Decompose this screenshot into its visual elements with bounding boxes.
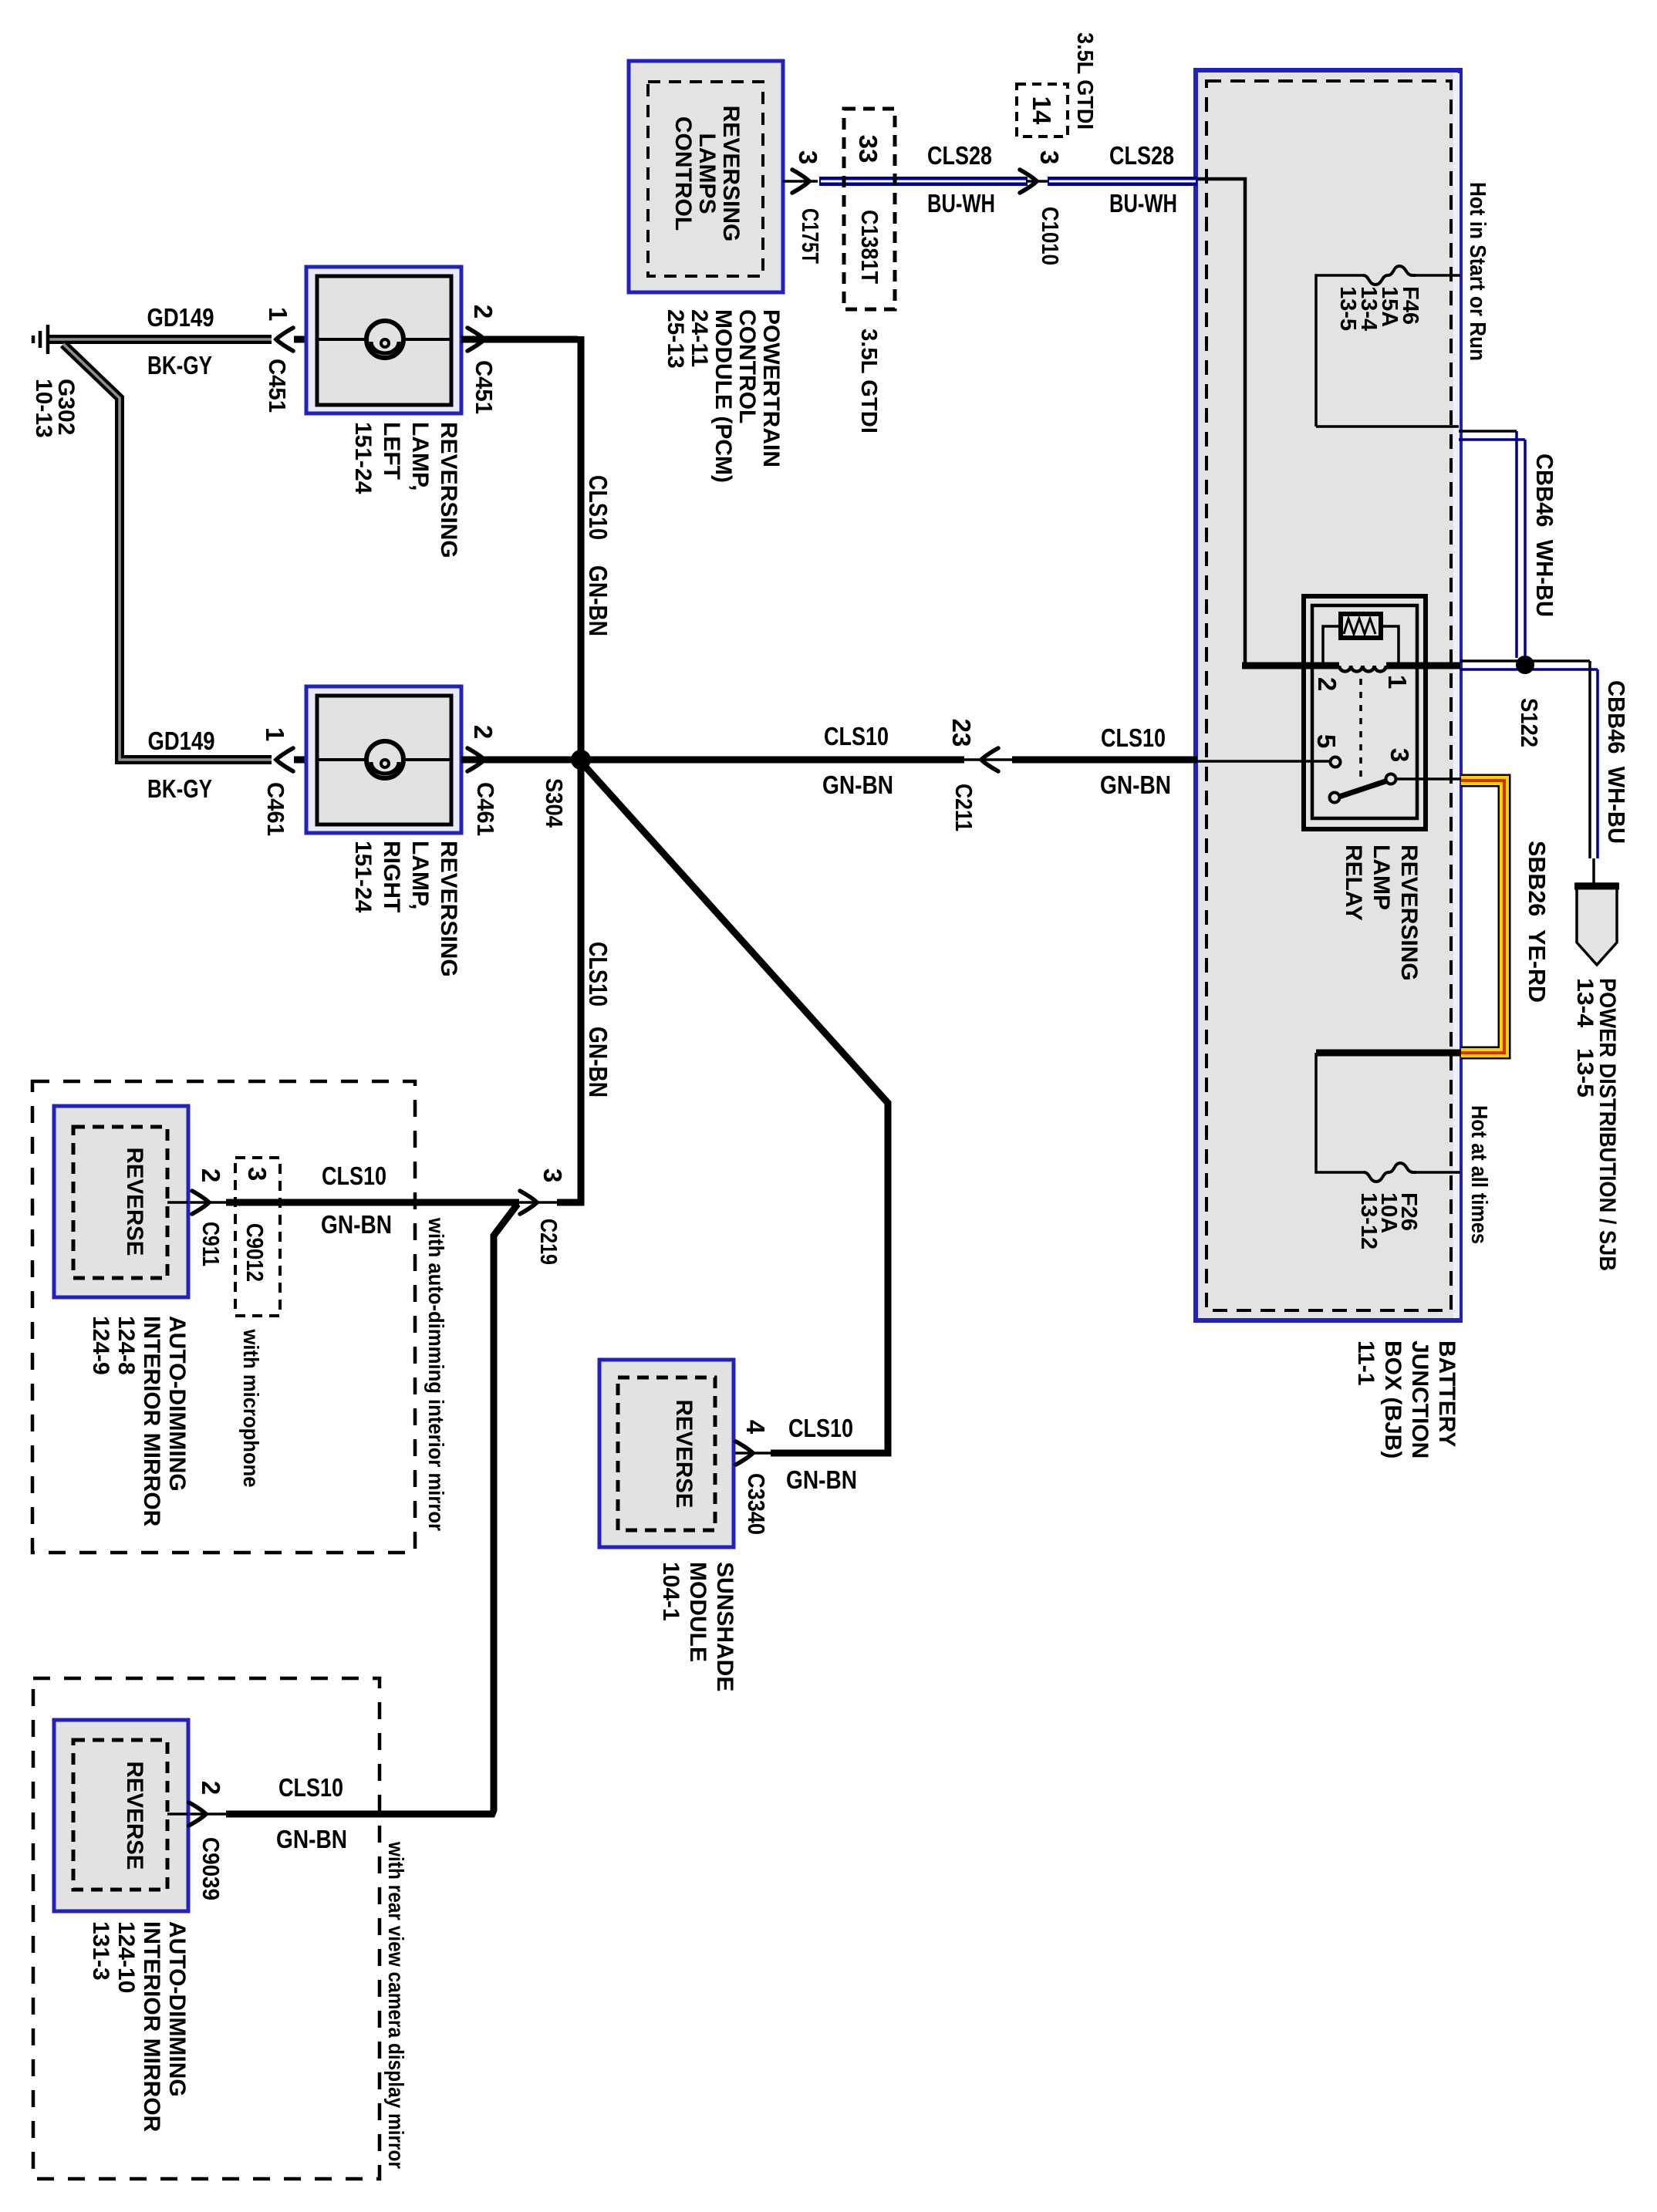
svg-text:BK-GY: BK-GY [147, 351, 212, 379]
arrow C219 [520, 1191, 537, 1214]
arrow C3340 [736, 1442, 753, 1465]
auto-dimming interior mirror 2 REVERSE box [54, 1720, 188, 1911]
svg-text:GN-BN: GN-BN [1100, 770, 1171, 799]
wire: thick relay pin1 to BJB edge [1386, 663, 1460, 669]
svg-text:C911: C911 [197, 1222, 224, 1266]
svg-text:3.5L GTDI: 3.5L GTDI [1072, 32, 1097, 130]
svg-text:C1010: C1010 [1037, 207, 1064, 265]
svg-text:POWERTRAINCONTROLMODULE (PCM)2: POWERTRAINCONTROLMODULE (PCM)24-1125-13 [663, 309, 784, 483]
svg-text:CLS10: CLS10 [584, 475, 613, 540]
wire: thin at C211 arrow [964, 758, 1012, 761]
relay pin3 contact [1386, 774, 1396, 784]
svg-text:BATTERYJUNCTIONBOX (BJB)11-1: BATTERYJUNCTIONBOX (BJB)11-1 [1353, 1340, 1460, 1458]
wire: thick black into left lamp pin1 [294, 336, 308, 343]
svg-text:5: 5 [1312, 734, 1341, 748]
reversing lamp right box [306, 686, 461, 833]
auto-dimming interior mirror 1 REVERSE box [54, 1106, 188, 1297]
svg-text:C9039: C9039 [197, 1837, 224, 1900]
svg-text:CLS10: CLS10 [824, 722, 889, 750]
svg-text:2: 2 [1313, 677, 1341, 691]
svg-text:GN-BN: GN-BN [584, 1027, 613, 1098]
node S122 [1516, 656, 1534, 674]
svg-text:REVERSINGLAMP,LEFT151-24: REVERSINGLAMP,LEFT151-24 [350, 422, 461, 558]
svg-text:REVERSE: REVERSE [671, 1400, 697, 1509]
svg-text:SBB26 YE-RD: SBB26 YE-RD [1524, 841, 1551, 1003]
wire: SBB26 YE-RD yellow loop [1461, 781, 1504, 1053]
svg-text:3: 3 [538, 1168, 567, 1182]
bulb right lamp [366, 741, 403, 778]
wire: CLS10 right lamp row through S304 [461, 757, 964, 764]
svg-text:CBB46 WH-BU: CBB46 WH-BU [1531, 454, 1558, 617]
svg-text:Hot in Start or Run: Hot in Start or Run [1465, 182, 1490, 361]
relay coil stubs [1323, 626, 1399, 663]
svg-text:2: 2 [197, 1168, 225, 1182]
svg-text:AUTO-DIMMINGINTERIOR MIRROR124: AUTO-DIMMINGINTERIOR MIRROR124-8124-9 [88, 1316, 190, 1527]
svg-text:2: 2 [197, 1781, 225, 1795]
wire: thin relay pin3 to BJB right edge [1396, 777, 1461, 781]
svg-text:GN-BN: GN-BN [584, 565, 613, 636]
svg-text:with rear view camera display: with rear view camera display mirror [384, 1841, 408, 2169]
bulb left lamp [366, 321, 403, 358]
node S304 [571, 750, 591, 770]
arrow C211 [981, 748, 998, 771]
arrow C1010 [1020, 170, 1037, 193]
wire: CLS10 C219 to mirror1 [226, 1199, 519, 1206]
wire: thin at C219 arrow [519, 1201, 557, 1204]
svg-text:C9012: C9012 [241, 1223, 268, 1282]
wire: CLS10 left lamp pin2 to corner [461, 336, 578, 343]
svg-text:1: 1 [261, 727, 289, 741]
svg-text:REVERSE: REVERSE [122, 1148, 147, 1256]
wire: thin relay pin5 to BJB left edge [1197, 760, 1330, 763]
svg-text:with auto-dimming interior mir: with auto-dimming interior mirror [424, 1217, 448, 1531]
svg-text:CLS10: CLS10 [278, 1773, 343, 1802]
wire: thin to C9039 [188, 1812, 226, 1816]
reversing lamp relay box [1304, 596, 1426, 829]
svg-text:Hot at all times: Hot at all times [1466, 1105, 1491, 1244]
relay actuator dashed line [1359, 679, 1362, 781]
wire: branch diagonal to bottom mirror [226, 1204, 518, 1814]
arrow C175T [792, 170, 809, 193]
svg-text:CLS10: CLS10 [1101, 723, 1166, 752]
arrow C911 [192, 1191, 209, 1214]
wire: thin inside BJB from CLS28 down to relay [1197, 179, 1245, 664]
powertrain control module PCM box [629, 61, 783, 292]
relay pin5 contact [1331, 757, 1341, 767]
fuse F46 box [1316, 266, 1460, 427]
connector 14 dashed box [1017, 84, 1068, 137]
dashed option box: with rear view camera display mirror [33, 1678, 380, 2179]
svg-text:23: 23 [947, 719, 976, 747]
svg-text:C175T: C175T [797, 208, 824, 264]
svg-text:GN-BN: GN-BN [822, 770, 893, 799]
wire: GD149 BK-GY ground wires (double line) [48, 339, 272, 760]
wire: thin to C911 [188, 1201, 226, 1204]
arrow C461 pin1 [276, 748, 293, 771]
svg-text:C1381T: C1381T [856, 210, 883, 284]
svg-text:CLS10: CLS10 [322, 1162, 386, 1190]
svg-text:CBB46 WH-BU: CBB46 WH-BU [1603, 680, 1630, 844]
connector C9012 dashed box [235, 1158, 280, 1316]
svg-text:3: 3 [243, 1167, 272, 1181]
svg-text:C3340: C3340 [743, 1473, 770, 1535]
svg-text:1: 1 [264, 307, 292, 321]
wire: CBB46 pair S122 down to SJB arrow [1590, 661, 1598, 884]
svg-text:3: 3 [1035, 150, 1064, 164]
svg-text:33: 33 [854, 135, 882, 164]
svg-text:C451: C451 [264, 359, 291, 413]
svg-text:S304: S304 [541, 778, 568, 828]
svg-text:POWER DISTRIBUTION / SJB13-4: POWER DISTRIBUTION / SJB13-4 13-5 [1572, 978, 1620, 1271]
svg-text:GN-BN: GN-BN [786, 1465, 857, 1494]
arrow C451 pin2 [467, 328, 484, 351]
wire: thick black into right lamp pin1 [294, 757, 308, 764]
svg-text:2: 2 [469, 305, 498, 319]
wire: CLS10 C211 to BJB [1012, 757, 1197, 764]
arrow C451 pin1 [276, 328, 293, 351]
svg-text:F4615A13-413-5: F4615A13-413-5 [1335, 286, 1422, 331]
battery junction box BJB [1196, 70, 1460, 1320]
svg-text:C451: C451 [471, 360, 498, 414]
svg-text:C461: C461 [262, 782, 289, 836]
wire: CLS10 vertical main trunk [557, 336, 581, 1202]
power distribution SJB arrow symbol [1574, 884, 1619, 965]
svg-text:C219: C219 [535, 1219, 562, 1265]
coil arcs [1339, 666, 1386, 672]
arrow C461 pin2 [467, 748, 484, 771]
svg-text:SUNSHADEMODULE104-1: SUNSHADEMODULE104-1 [658, 1562, 737, 1691]
reversing lamp left box [306, 267, 461, 413]
wire: diagonal S304 to sunshade [584, 765, 888, 1453]
svg-text:BU-WH: BU-WH [1109, 189, 1177, 217]
wire: thin at C1010 arrow [1026, 180, 1049, 183]
svg-text:GN-BN: GN-BN [276, 1825, 347, 1853]
connector C1381T dashed box [844, 109, 895, 309]
svg-text:with microphone: with microphone [239, 1329, 263, 1488]
svg-text:REVERSINGLAMP,RIGHT151-24: REVERSINGLAMP,RIGHT151-24 [350, 841, 461, 977]
svg-text:REVERSE: REVERSE [122, 1762, 147, 1870]
svg-text:14: 14 [1028, 96, 1056, 125]
wire: CLS28 BU-WH segment 1 [819, 177, 1028, 186]
connector arrows [189, 170, 1037, 1826]
wire: thin to C3340 [715, 1452, 771, 1455]
svg-text:3.5L GTDI: 3.5L GTDI [856, 329, 881, 433]
svg-text:4: 4 [741, 1420, 770, 1435]
wire: black+blue pair relay pin1 wire to S122 [1460, 661, 1598, 669]
wire: thick F26 feed [1316, 1050, 1461, 1057]
dashed option box: with auto-dimming interior mirror [32, 1081, 415, 1553]
svg-text:GN-BN: GN-BN [321, 1210, 392, 1239]
wire: CLS28 BU-WH segment 2 [1048, 177, 1197, 186]
wire: CBB46 pair F46 to S122 corner [1459, 431, 1525, 658]
sunshade module box [599, 1360, 734, 1547]
svg-text:1: 1 [1383, 675, 1412, 689]
svg-text:G30210-13: G30210-13 [31, 379, 79, 438]
svg-text:CLS28: CLS28 [927, 141, 992, 170]
svg-text:AUTO-DIMMINGINTERIOR MIRROR124: AUTO-DIMMINGINTERIOR MIRROR124-10131-3 [88, 1921, 190, 2133]
svg-text:3: 3 [794, 150, 822, 164]
svg-text:C211: C211 [950, 784, 977, 831]
svg-text:CLS10: CLS10 [584, 942, 613, 1007]
svg-text:3: 3 [1385, 748, 1414, 762]
svg-text:CLS28: CLS28 [1109, 141, 1174, 170]
svg-text:BK-GY: BK-GY [147, 774, 212, 803]
arrow C9039 [189, 1802, 206, 1826]
relay coil resistor box [1341, 614, 1381, 638]
ground G302 symbol [33, 325, 48, 354]
fuse F26 box [1316, 1053, 1460, 1182]
svg-text:2: 2 [469, 725, 498, 739]
svg-text:S122: S122 [1516, 698, 1543, 747]
relay pivot contact [1330, 793, 1340, 803]
relay switch blade [1339, 781, 1385, 797]
svg-text:BU-WH: BU-WH [927, 189, 995, 217]
svg-text:GD149: GD149 [148, 727, 215, 755]
svg-text:CLS10: CLS10 [788, 1414, 853, 1442]
svg-text:C461: C461 [472, 782, 499, 836]
wire: thin PCM lead to C175T [783, 180, 818, 183]
svg-text:GD149: GD149 [147, 303, 214, 332]
wire: thick relay coil feed [1242, 663, 1339, 669]
